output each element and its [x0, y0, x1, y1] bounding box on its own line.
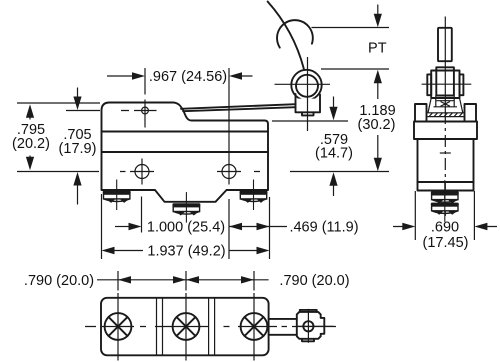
- dim .469/1.937 right extension line: [269, 197, 271, 259]
- dim .790 ticks: [118, 271, 254, 291]
- roller edge-on: [438, 28, 452, 61]
- PT arrow: [377, 5, 379, 18]
- body lower line: [418, 181, 474, 183]
- mounting hole right: [222, 165, 236, 179]
- lever free-position sweep arc: [268, 2, 304, 69]
- bracket inner: [436, 67, 454, 95]
- screw head bottom left: [105, 313, 132, 340]
- right reference lines: [290, 28, 389, 172]
- horizontal dashed centerline: [85, 326, 336, 328]
- dim .690: [415, 191, 474, 240]
- svg-text:(17.9): (17.9): [59, 141, 97, 157]
- terminal screw right: [240, 180, 268, 211]
- dim 1.189: [374, 70, 382, 84]
- body ears: [415, 104, 427, 122]
- dim .579 arrows: [333, 97, 335, 111]
- svg-text:.967 (24.56): .967 (24.56): [149, 69, 227, 85]
- svg-text:(20.2): (20.2): [12, 136, 50, 152]
- dim .705: [77, 88, 79, 101]
- bracket horizontal centerline: [422, 83, 472, 85]
- svg-text:1.937 (49.2): 1.937 (49.2): [147, 244, 225, 260]
- dim 1.937 arrows: [102, 247, 115, 254]
- svg-text:PT: PT: [368, 40, 387, 56]
- dim .790 line: [97, 279, 269, 281]
- roller crosshair: [275, 57, 331, 131]
- roller inner circle: [296, 75, 318, 97]
- dim 1.000 extension lines: [142, 197, 230, 260]
- body inner line upper: [102, 131, 269, 133]
- clamp area: [437, 100, 455, 102]
- side screw stack: [431, 180, 459, 211]
- dim .469 arrows + shared line: [229, 223, 242, 230]
- phantom roller arc (released position): [277, 20, 313, 47]
- side roller pin circle: [303, 321, 313, 331]
- lever arm: [181, 104, 296, 109]
- dim .795: [26, 104, 34, 118]
- svg-text:.469 (11.9): .469 (11.9): [289, 220, 358, 236]
- bracket crosshair: [296, 309, 334, 343]
- mounting plate: [101, 298, 269, 356]
- centerline: [444, 17, 446, 113]
- side roller bracket body: [297, 312, 325, 339]
- svg-text:.790 (20.0): .790 (20.0): [24, 273, 94, 289]
- dim .579 ledge extension: [272, 120, 348, 122]
- body wide band: [414, 122, 477, 140]
- svg-text:(30.2): (30.2): [358, 117, 396, 133]
- dim .967 arrows and line: [107, 75, 253, 77]
- screw head bottom middle: [173, 313, 200, 340]
- dim 1.937 left extension line: [101, 194, 103, 259]
- svg-text:(14.7): (14.7): [315, 146, 353, 162]
- left reference lines: [17, 103, 100, 172]
- terminal screw left: [103, 180, 131, 211]
- svg-text:.790 (20.0): .790 (20.0): [279, 273, 349, 289]
- mounting hole left: [135, 165, 149, 179]
- body main: [418, 139, 474, 191]
- vertical centerlines: [118, 293, 254, 361]
- dim .967 extension lines: [145, 68, 229, 185]
- svg-text:1.000 (25.4): 1.000 (25.4): [147, 220, 225, 236]
- side roller bracket bars: [269, 319, 297, 335]
- body inner line lower: [102, 151, 269, 153]
- svg-text:.690: .690: [431, 220, 459, 236]
- divider lines: [157, 298, 215, 356]
- lever pivot hole: [142, 107, 149, 114]
- roller outer circle: [291, 70, 321, 100]
- plunger screw center: [172, 192, 200, 223]
- bracket outer: [431, 71, 459, 99]
- dim 1.000 arrows: [115, 226, 129, 228]
- screw head bottom right: [241, 313, 268, 340]
- roller bracket: [296, 94, 321, 112]
- svg-text:(17.45): (17.45): [423, 235, 469, 251]
- switch body outline: [102, 103, 269, 202]
- bracket side plates: [427, 74, 431, 95]
